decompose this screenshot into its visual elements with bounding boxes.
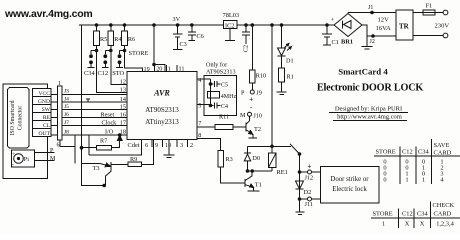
svg-text:4: 4: [198, 77, 201, 84]
svg-text:12: 12: [120, 79, 126, 86]
svg-text:X: X: [405, 221, 410, 228]
svg-text:3: 3: [180, 142, 183, 149]
svg-text:http://www.avr.4mg.com: http://www.avr.4mg.com: [337, 114, 402, 121]
svg-text:Cdet: Cdet: [128, 142, 140, 149]
svg-text:D0: D0: [252, 155, 260, 162]
svg-text:AT90S2313: AT90S2313: [206, 69, 236, 76]
svg-text:SAVE: SAVE: [434, 142, 450, 149]
svg-text:CHECK: CHECK: [433, 202, 455, 209]
svg-text:11: 11: [179, 66, 185, 73]
svg-text:R4: R4: [114, 36, 121, 43]
svg-text:CARD: CARD: [434, 150, 452, 157]
svg-text:13: 13: [120, 87, 126, 94]
svg-text:230V: 230V: [435, 23, 450, 30]
svg-text:OUT: OUT: [39, 131, 51, 137]
svg-text:J2: J2: [370, 39, 375, 45]
svg-text:STO: STO: [112, 70, 124, 77]
svg-text:+: +: [307, 161, 311, 170]
svg-text:R9: R9: [130, 156, 137, 163]
svg-text:C2: C2: [243, 45, 250, 52]
svg-text:J5: J5: [64, 104, 69, 110]
svg-text:T3: T3: [93, 165, 100, 172]
svg-text:F1: F1: [426, 3, 433, 10]
svg-text:I/O: I/O: [105, 129, 114, 136]
svg-text:ISO Smartcard: ISO Smartcard: [10, 100, 16, 135]
svg-text:X: X: [420, 221, 425, 228]
svg-text:5: 5: [198, 103, 201, 110]
svg-text:16: 16: [120, 111, 126, 118]
svg-text:C5: C5: [221, 83, 228, 89]
svg-text:-: -: [12, 163, 14, 169]
svg-text:C12: C12: [402, 149, 413, 156]
svg-text:19: 19: [144, 66, 150, 73]
svg-text:Electronic DOOR LOCK: Electronic DOOR LOCK: [317, 83, 423, 94]
svg-text:C4: C4: [221, 104, 228, 110]
svg-text:D1: D1: [286, 58, 294, 65]
svg-text:RE: RE: [43, 115, 51, 121]
svg-text:T1: T1: [255, 182, 262, 189]
svg-text:15: 15: [120, 103, 126, 110]
svg-text:J3: J3: [64, 89, 69, 95]
svg-text:C34: C34: [84, 70, 95, 77]
svg-text:C6: C6: [197, 33, 204, 40]
svg-text:12V: 12V: [378, 17, 390, 24]
svg-text:17: 17: [120, 119, 126, 126]
svg-text:TR: TR: [399, 23, 410, 31]
svg-text:www.avr.4mg.com: www.avr.4mg.com: [4, 8, 92, 20]
svg-text:IC2: IC2: [225, 22, 234, 29]
svg-text:C3: C3: [180, 41, 187, 48]
svg-text:1: 1: [168, 66, 171, 73]
svg-text:3V: 3V: [173, 16, 181, 23]
svg-text:1: 1: [405, 177, 408, 184]
svg-text:R6: R6: [128, 36, 135, 43]
svg-text:J9: J9: [256, 90, 262, 97]
svg-text:M: M: [50, 156, 56, 162]
svg-text:J6: J6: [64, 112, 69, 118]
svg-text:14: 14: [120, 96, 126, 103]
svg-text:BR1: BR1: [341, 39, 353, 46]
svg-text:1: 1: [382, 221, 385, 228]
svg-text:J4: J4: [64, 96, 69, 102]
svg-text:GND: GND: [38, 99, 50, 105]
svg-text:6: 6: [57, 143, 60, 149]
svg-text:0: 0: [383, 177, 386, 184]
svg-text:J12: J12: [305, 175, 314, 182]
svg-text:STORE: STORE: [376, 149, 396, 156]
svg-text:Door strike or: Door strike or: [330, 176, 369, 183]
svg-text:Reset: Reset: [101, 111, 115, 118]
svg-text:6: 6: [145, 142, 148, 149]
svg-text:STORE: STORE: [129, 50, 149, 57]
svg-text:C1: C1: [332, 39, 339, 46]
svg-text:RE1: RE1: [277, 169, 288, 176]
svg-text:78L03: 78L03: [223, 12, 240, 19]
svg-text:+: +: [12, 152, 15, 158]
svg-text:R10: R10: [256, 73, 266, 80]
svg-text:VCC: VCC: [38, 91, 50, 97]
svg-text:J7: J7: [64, 120, 69, 126]
svg-text:CARD: CARD: [434, 211, 452, 218]
svg-text:1,2,3,4: 1,2,3,4: [436, 221, 454, 228]
svg-text:R3: R3: [226, 156, 233, 163]
svg-text:Designed by: Kripa PURI: Designed by: Kripa PURI: [335, 106, 402, 113]
svg-text:AT90S2313: AT90S2313: [145, 106, 179, 114]
svg-text:R7: R7: [100, 137, 107, 144]
svg-text:1: 1: [422, 177, 425, 184]
svg-text:J10: J10: [253, 112, 262, 119]
svg-text:SW: SW: [42, 107, 51, 113]
svg-text:J1: J1: [368, 5, 373, 11]
svg-text:M: M: [240, 112, 246, 119]
svg-text:R5: R5: [100, 36, 107, 43]
svg-text:10: 10: [165, 142, 171, 149]
svg-text:4MHz: 4MHz: [221, 94, 237, 100]
svg-text:Connector: Connector: [18, 106, 24, 131]
svg-text:J8: J8: [64, 129, 69, 135]
svg-text:R1: R1: [287, 74, 294, 81]
svg-text:C12: C12: [402, 211, 413, 218]
svg-text:C12: C12: [98, 70, 109, 77]
svg-text:1: 1: [58, 81, 61, 87]
svg-text:STORE: STORE: [373, 211, 393, 218]
svg-text:C34: C34: [418, 149, 429, 156]
svg-text:7: 7: [198, 120, 201, 127]
svg-text:Pi: Pi: [24, 156, 29, 163]
svg-text:20: 20: [156, 66, 162, 73]
svg-text:D2: D2: [304, 189, 312, 196]
svg-text:9: 9: [155, 142, 158, 149]
svg-text:ATtiny2313: ATtiny2313: [145, 118, 179, 126]
svg-text:Clock: Clock: [102, 119, 118, 126]
svg-text:P: P: [241, 90, 245, 97]
svg-text:R11: R11: [219, 114, 229, 121]
svg-text:+: +: [249, 95, 253, 103]
svg-text:SmartCard 4: SmartCard 4: [338, 67, 388, 77]
svg-text:T2: T2: [254, 126, 261, 133]
svg-text:2: 2: [190, 142, 193, 149]
svg-text:AVR: AVR: [153, 89, 170, 98]
svg-text:J11: J11: [305, 201, 313, 208]
svg-text:CL: CL: [43, 123, 51, 129]
svg-text:Electric lock: Electric lock: [332, 186, 367, 193]
svg-text:16VA: 16VA: [376, 25, 392, 32]
svg-text:Only for: Only for: [206, 62, 227, 69]
svg-text:+: +: [331, 17, 335, 24]
svg-text:C34: C34: [417, 211, 428, 218]
